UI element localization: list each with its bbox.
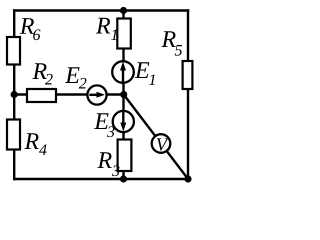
voltmeter V <box>152 134 171 153</box>
label R5 <box>161 31 182 55</box>
wire diagonal <box>124 95 188 180</box>
resistor R6 <box>7 37 20 65</box>
label R1 <box>96 18 117 40</box>
EMF source E3 <box>113 111 134 132</box>
label E1 <box>135 62 155 85</box>
wire middle vertical <box>122 11 124 180</box>
junction node top <box>120 7 127 14</box>
resistor R5 <box>183 61 193 89</box>
wire right <box>187 9 189 180</box>
junction node bottom-right <box>184 175 191 182</box>
label R2 <box>32 63 52 84</box>
resistor R1 <box>117 19 131 49</box>
junction node bottom <box>120 175 127 182</box>
label R6 <box>20 18 41 40</box>
resistor R3 <box>118 140 132 172</box>
junction node left-middle <box>11 91 18 98</box>
label R4 <box>24 133 46 155</box>
EMF source E1 <box>112 61 134 83</box>
junction node center <box>120 91 127 98</box>
label E3 <box>94 113 114 137</box>
resistor R2 <box>27 89 56 102</box>
wire top <box>13 9 189 11</box>
wire bottom <box>13 178 189 180</box>
wire left <box>13 9 15 180</box>
resistor R4 <box>7 120 20 150</box>
label R3 <box>97 152 119 176</box>
wire middle horizontal <box>14 93 124 95</box>
EMF source E2 <box>87 85 106 104</box>
label E2 <box>65 67 86 88</box>
